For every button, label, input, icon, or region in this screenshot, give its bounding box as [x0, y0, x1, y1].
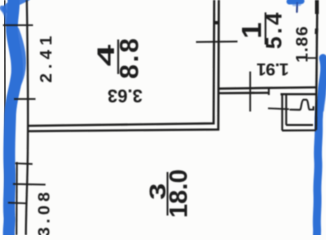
- room 3 fraction line: [167, 172, 169, 216]
- blue marker right top dab halo: [294, 2, 300, 6]
- svg-text:1.86: 1.86: [293, 25, 312, 62]
- svg-text:3.08: 3.08: [35, 188, 54, 235]
- svg-text:8.8: 8.8: [114, 36, 144, 79]
- node right wall blob: [315, 29, 318, 35]
- wire room2 left wall inner line: [281, 94, 283, 130]
- blue marker right edge overlay: [322, 60, 326, 110]
- wire left window line: [16, 162, 18, 235]
- wire left wall tick dim308: [13, 183, 46, 186]
- wire room1 bottom wall lower line left segment: [219, 92, 270, 95]
- svg-text:18.0: 18.0: [165, 169, 193, 218]
- svg-text:3.63: 3.63: [107, 86, 142, 106]
- wire middle wall dimension tick: [196, 41, 238, 44]
- wire middle wall outer line with corner to room divider: [28, 0, 218, 131]
- wire left inner wall line: [26, 0, 28, 235]
- wire room1 bottom wall upper line: [219, 87, 318, 88]
- wire right wall tick dim186: [307, 57, 317, 59]
- wire room2 dimension tick: [268, 107, 289, 110]
- blue marker left edge touch: [2, 8, 8, 24]
- wire room2 bottom wall inner line: [286, 124, 313, 126]
- wire left wall tick top: [3, 24, 33, 26]
- wire right wall line thick top segment: [315, 0, 319, 14]
- blue marker left main stroke: [9, 0, 17, 238]
- wire middle wall inner line with corner to room divider: [28, 0, 214, 126]
- wire left wall tick mid: [14, 98, 36, 100]
- wire left wall tick window-top: [15, 162, 33, 165]
- svg-text:5.4: 5.4: [262, 10, 287, 49]
- svg-text:2.41: 2.41: [37, 31, 56, 83]
- blue marker left top flare: [6, 0, 27, 9]
- room 4 fraction line: [117, 40, 119, 75]
- wire room2 bottom wall outer line: [282, 129, 316, 131]
- wire right wall line: [316, 0, 317, 130]
- svg-text:1.91: 1.91: [256, 60, 289, 80]
- wire room2 left wall outer line: [285, 94, 287, 125]
- wire room2 top wall line: [281, 93, 318, 95]
- wire left outer wall line: [5, 0, 6, 235]
- blue marker left overdraw bulge: [14, 30, 23, 95]
- fixture toilet squiggle in room 2: [290, 100, 315, 110]
- blue marker right main stroke: [317, 58, 325, 237]
- room 1 fraction line: [265, 12, 267, 44]
- wire dimension line x250: [249, 72, 251, 112]
- node middle wall joint blob: [214, 21, 219, 24]
- blue marker right top dab tail: [296, 3, 298, 12]
- wire door jamb stub: [268, 88, 270, 96]
- wire left window tick lower: [8, 202, 26, 205]
- blue marker right top dab: [290, 0, 302, 5]
